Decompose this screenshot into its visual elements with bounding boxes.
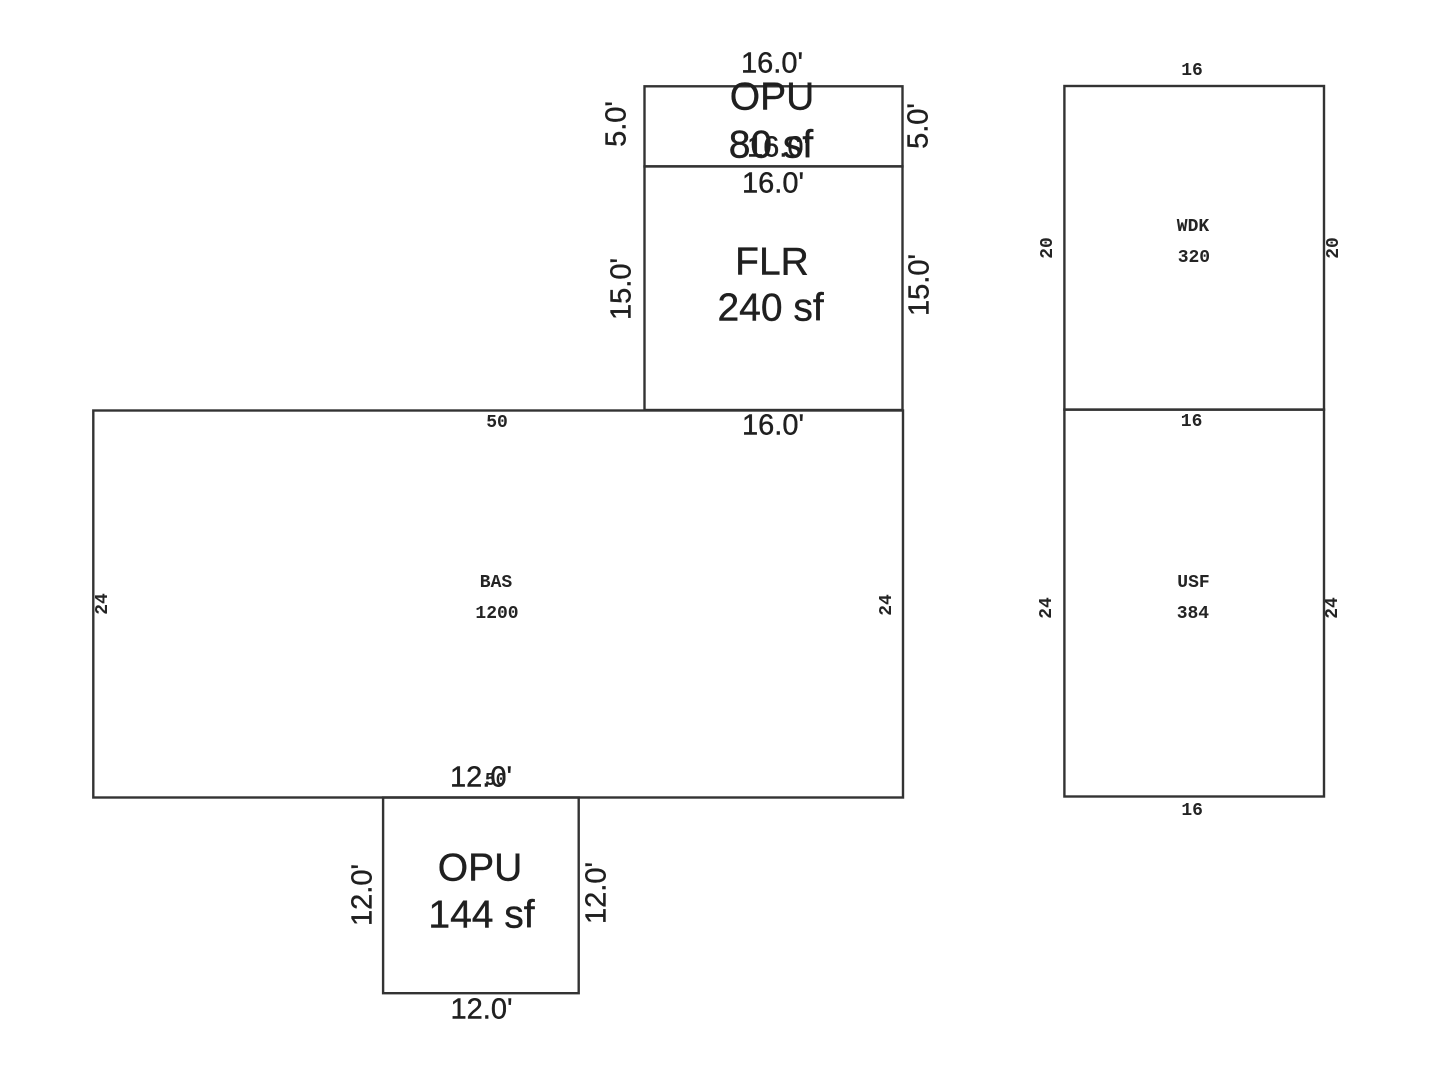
dim 12.0 bottom of OPU-144 [451, 996, 513, 1025]
dim 20 right of WDK [1325, 237, 1343, 259]
dim 5.0 left of OPU-80 [603, 101, 632, 147]
label 80 sf [729, 126, 814, 165]
dim 24 left of USF [1038, 597, 1056, 619]
label USF [1177, 574, 1209, 592]
dim 50 bottom of BAS [485, 772, 507, 790]
dim 16 bottom of USF [1181, 802, 1203, 820]
label WDK [1177, 218, 1209, 236]
dim 15.0 right of FLR [906, 254, 935, 316]
dim 16.0 bottom of FLR [742, 412, 804, 441]
dim 16 top of WDK [1181, 62, 1203, 80]
label BAS [480, 574, 512, 592]
label OPU (lower) [438, 849, 523, 888]
dim 12.0 top of OPU-144 [450, 764, 512, 793]
dim 16.0 top of OPU-80 [741, 50, 803, 79]
label 384 [1177, 605, 1209, 623]
room WDK 320 rect [1064, 86, 1324, 410]
room OPU 144sf rect [383, 798, 579, 994]
dim 24 left of BAS [94, 593, 112, 615]
dim 5.0 right of OPU-80 [905, 103, 934, 149]
dim 15.0 left of FLR [608, 258, 637, 320]
label OPU [730, 78, 815, 117]
room OPU 80sf rect [645, 86, 903, 166]
room FLR 240sf rect [645, 166, 903, 410]
dim 24 right of USF [1324, 597, 1342, 619]
dim 12.0 left of OPU-144 [349, 864, 378, 926]
label 240 sf [717, 289, 823, 328]
room BAS 1200 rect [93, 411, 903, 798]
dim 24 right of BAS [878, 594, 896, 616]
label 320 [1178, 249, 1210, 267]
dim 16.0 top of FLR [742, 170, 804, 199]
dim 16 bottom of WDK [1181, 413, 1203, 431]
dim 16.0 bottom of OPU-80 (overlapped) [747, 134, 809, 163]
label 144 sf [428, 896, 534, 935]
label 1200 [475, 605, 518, 623]
dim 50 top of BAS [486, 414, 508, 432]
dim 12.0 right of OPU-144 [583, 862, 612, 924]
label FLR [735, 243, 809, 282]
dim 20 left of WDK [1039, 237, 1057, 259]
room USF 384 rect [1064, 410, 1324, 797]
